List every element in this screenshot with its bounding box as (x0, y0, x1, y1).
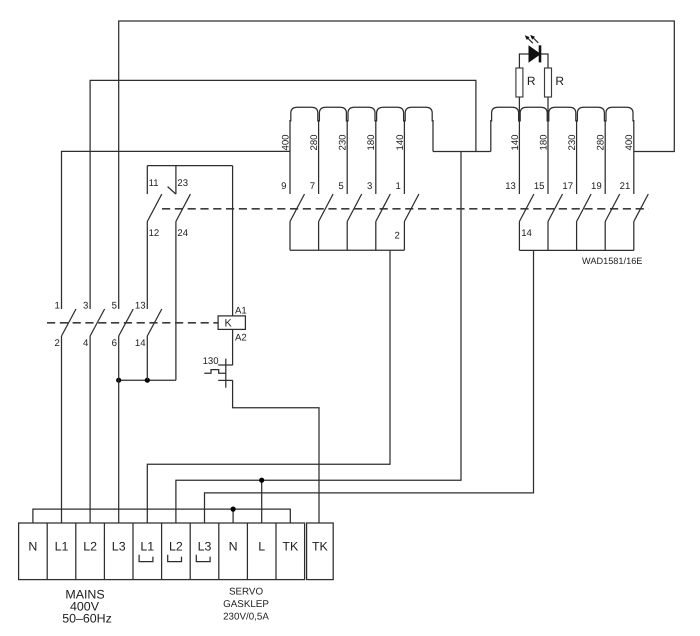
svg-text:280: 280 (309, 134, 320, 150)
svg-text:A1: A1 (235, 306, 247, 317)
svg-text:140: 140 (395, 134, 406, 150)
transformer secondary winding right bank, arcs (492, 107, 633, 121)
winding tap 280 right, vertical (604, 120, 606, 194)
resistor R1 (516, 68, 523, 97)
terminal divider 8 (246, 523, 248, 580)
wire: relay coil A2 down to thermal cutout (232, 329, 234, 365)
wire: jumper row joining contacts 6,14,24 (119, 379, 176, 381)
svg-text:5: 5 (112, 301, 117, 312)
LED D1 cathode bar (539, 45, 542, 62)
svg-text:15: 15 (534, 181, 545, 192)
junction: contact 14 wire (145, 378, 150, 383)
svg-text:A2: A2 (235, 333, 247, 344)
switch contact 1 lower lead (403, 222, 405, 251)
terminal divider 9 (275, 523, 277, 580)
contact 11 upper lead (146, 166, 148, 195)
svg-text:L3: L3 (198, 540, 212, 554)
wire: contact 2 down to terminal L1 mains (61, 336, 63, 523)
contact 11 blade (147, 194, 162, 221)
LED light arrow 2 (533, 38, 538, 43)
svg-text:TK: TK (282, 540, 299, 554)
switch contact 13 lower lead (518, 222, 520, 251)
svg-text:11: 11 (149, 178, 159, 189)
LED light arrow 1 (528, 38, 533, 43)
svg-text:3: 3 (367, 181, 372, 192)
svg-text:130: 130 (203, 356, 219, 367)
winding tap 180 right, vertical (547, 120, 549, 194)
svg-text:7: 7 (310, 181, 315, 192)
thermal cutout upper contact bar (218, 364, 233, 366)
terminal divider 1 (46, 523, 48, 580)
contact 5-6 blade (119, 309, 134, 336)
svg-text:400: 400 (624, 134, 635, 150)
wire: feed from contact 1 up, across to tap 400 of left winding (62, 151, 291, 309)
switch contact 15 lower lead (547, 222, 549, 251)
transformer primary winding left bank, arcs (291, 107, 432, 121)
winding end left, vertical (432, 120, 434, 152)
terminal divider 3 (103, 523, 105, 580)
svg-text:R: R (527, 74, 536, 88)
svg-text:230V/0,5A: 230V/0,5A (223, 611, 269, 622)
winding start right, vertical (490, 120, 492, 152)
terminal divider 2 (75, 523, 77, 580)
svg-text:13: 13 (505, 181, 516, 192)
switch contact 9 lower lead (289, 222, 291, 251)
wire: contact 4 down to terminal L2 mains (89, 336, 91, 523)
svg-text:1: 1 (396, 181, 401, 192)
switch contact 19 blade (605, 194, 620, 222)
svg-text:L2: L2 (83, 540, 97, 554)
junction: line B to terminal L (259, 478, 264, 483)
svg-text:50–60Hz: 50–60Hz (62, 612, 112, 626)
switch contact 3 lower lead (375, 222, 377, 251)
switch contact 7 lower lead (318, 222, 320, 251)
contact 1-2 blade (62, 309, 77, 336)
winding tap 180 left, vertical (375, 120, 377, 194)
svg-text:L1: L1 (140, 540, 154, 554)
svg-text:14: 14 (135, 338, 146, 349)
svg-text:6: 6 (112, 338, 117, 349)
wire: contact 6 down through jumper junction to terminal L3 mains (118, 336, 120, 523)
switch contact 21 blade (634, 194, 649, 222)
thermal cutout actuator step symbol (204, 370, 226, 374)
wire: right bank bus down then left to terminal L3 servo (205, 250, 534, 523)
switch contact 19 lower lead (604, 222, 606, 251)
svg-text:180: 180 (366, 134, 377, 150)
wire: anode branch from tap 140 right up to LED (519, 54, 529, 120)
svg-text:WAD1581/16E: WAD1581/16E (582, 256, 642, 266)
wire: feed from contact 3 up, across, down to inter-winding link (90, 80, 476, 309)
winding tap 400 right, vertical (633, 120, 635, 194)
svg-text:180: 180 (538, 134, 549, 150)
terminal block main box (19, 523, 305, 580)
wire: left bank bus down then left to terminal L1 servo (147, 250, 390, 523)
svg-text:280: 280 (596, 134, 607, 150)
switch contact 5 lower lead (346, 222, 348, 251)
switch contact 17 lower lead (576, 222, 578, 251)
svg-text:L: L (258, 540, 265, 554)
svg-text:24: 24 (177, 228, 188, 239)
svg-text:1: 1 (54, 301, 59, 312)
junction: contact 6 wire (116, 378, 121, 383)
svg-text:21: 21 (620, 181, 631, 192)
winding tap 400 left, vertical (289, 120, 291, 194)
svg-text:L2: L2 (169, 540, 183, 554)
svg-text:19: 19 (591, 181, 602, 192)
wire: stub from line B down to terminal L (261, 480, 263, 523)
wire: from inter-winding link down then left to terminal L2 servo (176, 152, 461, 524)
terminal divider 5 (161, 523, 163, 580)
thermal cutout lower contact bar (218, 379, 233, 381)
wire: cathode branch from LED down to tap 180 right (540, 54, 548, 120)
svg-text:2: 2 (54, 338, 59, 349)
relay coil K box (218, 316, 245, 330)
dashed actuation line from relay to main contacts (47, 322, 218, 324)
thermal cutout blade (225, 359, 227, 388)
svg-text:K: K (225, 318, 233, 330)
wire: stub from neutral bus to terminal N servo (232, 509, 234, 523)
aux block top frame wire (147, 165, 232, 167)
terminal divider 6 (189, 523, 191, 580)
switch contact 21 lower lead (633, 222, 635, 251)
wire: contact 14 down to jumper junction (146, 336, 148, 380)
right bank common bus (519, 249, 633, 251)
wire: neutral bus linking N, N servo and TK (33, 509, 290, 523)
switch contact 9 blade (290, 194, 305, 222)
svg-text:17: 17 (562, 181, 573, 192)
wire: contact 12 down to contact 13 upper (146, 222, 148, 310)
svg-text:TK: TK (312, 540, 329, 554)
winding tap 140 left, vertical (403, 120, 405, 194)
junction: neutral bus to N servo (231, 507, 236, 512)
svg-text:L3: L3 (112, 540, 126, 554)
link symbol under L2 servo (168, 555, 182, 562)
svg-text:230: 230 (338, 134, 349, 150)
contact 23 upper lead (175, 166, 177, 195)
svg-text:N: N (28, 540, 37, 554)
svg-text:12: 12 (149, 228, 160, 239)
svg-text:L1: L1 (55, 540, 69, 554)
wire: series link between left winding end and right winding start (433, 151, 491, 153)
link symbol under L1 servo (139, 555, 153, 562)
LED D1 triangle (529, 46, 540, 62)
svg-text:23: 23 (177, 178, 188, 189)
contact 3-4 blade (90, 309, 105, 336)
link symbol under L3 servo (196, 555, 210, 562)
wire: feed from contact 5 up, across top, down right side to tap 400 of right winding (119, 21, 675, 309)
svg-text:400: 400 (280, 134, 291, 150)
svg-text:9: 9 (281, 181, 286, 192)
svg-text:3: 3 (83, 301, 88, 312)
svg-text:140: 140 (510, 134, 521, 150)
svg-text:4: 4 (83, 338, 89, 349)
resistor R2 (545, 68, 552, 97)
contact 23 NC seat stroke (168, 187, 176, 195)
svg-text:5: 5 (338, 181, 343, 192)
winding tap 280 left, vertical (318, 120, 320, 194)
left bank common bus (290, 249, 404, 251)
svg-text:R: R (555, 74, 564, 88)
switch contact 3 blade (376, 194, 391, 222)
svg-text:13: 13 (135, 301, 146, 312)
svg-text:14: 14 (521, 228, 532, 239)
wire: thermal cutout down, right, down to terminal TK2 (233, 380, 319, 523)
switch contact 13 blade (519, 194, 534, 222)
switch contact 5 blade (347, 194, 362, 222)
winding tap 140 right, vertical (518, 120, 520, 194)
svg-text:SERVO: SERVO (229, 586, 264, 597)
svg-text:230: 230 (567, 134, 578, 150)
svg-text:2: 2 (394, 231, 399, 242)
switch contact 1 blade (404, 194, 419, 222)
dashed actuation line across tap switches (162, 208, 649, 210)
contact 13-14 blade (147, 309, 162, 336)
wire: contact 24 down to jumper row (175, 222, 177, 381)
terminal divider 7 (218, 523, 220, 580)
terminal divider 4 (132, 523, 134, 580)
switch contact 7 blade (319, 194, 334, 222)
wire: aux block frame down to relay coil A1 (232, 166, 234, 316)
contact 23 blade (176, 194, 191, 221)
svg-text:N: N (229, 540, 238, 554)
winding tap 230 left, vertical (346, 120, 348, 194)
switch contact 15 blade (548, 194, 563, 222)
terminal TK2 separate box (307, 523, 334, 580)
winding tap 230 right, vertical (576, 120, 578, 194)
switch contact 17 blade (577, 194, 592, 222)
svg-text:GASKLEP: GASKLEP (223, 599, 269, 610)
